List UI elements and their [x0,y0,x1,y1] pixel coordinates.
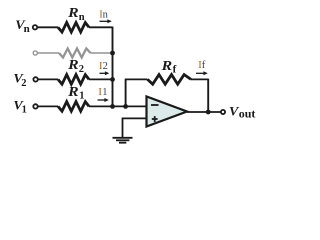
junction V2 row on bus [110,77,115,82]
wire R1 through bus to op-amp inverting input [89,105,147,107]
junction V1 row on bus [110,104,115,109]
wire V1 to R1 [38,105,58,107]
label V2 [13,71,26,89]
svg-text:1: 1 [79,91,84,102]
svg-text:2: 2 [103,61,108,72]
label Vn [15,17,29,35]
label V1 [13,98,26,116]
ground [113,138,133,143]
wire gray terminal to resistor [38,52,60,54]
resistor gray (unlabeled) [59,49,91,58]
wire feedback left vertical [125,79,127,106]
wire gray resistor to bus [91,52,113,54]
junction output node [206,110,211,115]
label In current [99,10,108,21]
label R2 [67,57,84,75]
svg-text:R: R [67,57,79,72]
svg-text:out: out [239,107,256,121]
junction feedback on inverting input [123,104,128,109]
wire input bus vertical [112,27,114,107]
wire non-inverting input [123,118,147,137]
svg-text:n: n [24,23,30,35]
label If current [198,60,206,71]
label Vout [229,103,255,120]
svg-text:1: 1 [22,105,27,116]
arrow In [100,19,112,23]
label Rn [67,5,85,23]
svg-text:R: R [67,84,79,99]
op-amp plus sign [152,116,158,122]
label I2 current [99,61,108,72]
label R1 [67,84,84,102]
node V2 input terminal [33,77,37,81]
junction gray row on bus [110,51,115,56]
resistor R1 [58,102,89,112]
wire Rn to bus corner [89,26,113,28]
op-amp minus sign [151,104,159,106]
svg-text:f: f [202,60,206,71]
svg-text:R: R [160,58,172,73]
label I1 current [98,87,107,98]
wire Vn to Rn [37,26,58,28]
wire op-amp output [187,111,221,113]
svg-text:f: f [173,63,177,75]
resistor Rn [58,23,89,33]
arrow I2 [100,71,110,75]
node V1 input terminal [33,104,37,108]
arrow If [196,71,208,75]
resistor Rf [148,75,192,85]
wire V2 to R2 [38,78,58,80]
arrow I1 [98,98,109,102]
svg-text:2: 2 [21,78,26,89]
wire R2 to bus [89,78,113,80]
op-amp U1 [147,97,188,127]
node Vout terminal [221,110,225,114]
wire feedback top left [125,78,148,80]
node Vn input terminal [33,25,37,29]
svg-text:n: n [103,10,109,21]
wire Rf to right corner [191,78,208,80]
node gray input terminal [33,51,37,55]
wire feedback right vertical [207,79,209,112]
svg-text:R: R [67,5,79,20]
svg-text:2: 2 [79,64,84,75]
svg-text:1: 1 [102,87,107,98]
resistor R2 [58,75,89,85]
svg-text:n: n [79,12,85,23]
label Rf [160,58,176,76]
